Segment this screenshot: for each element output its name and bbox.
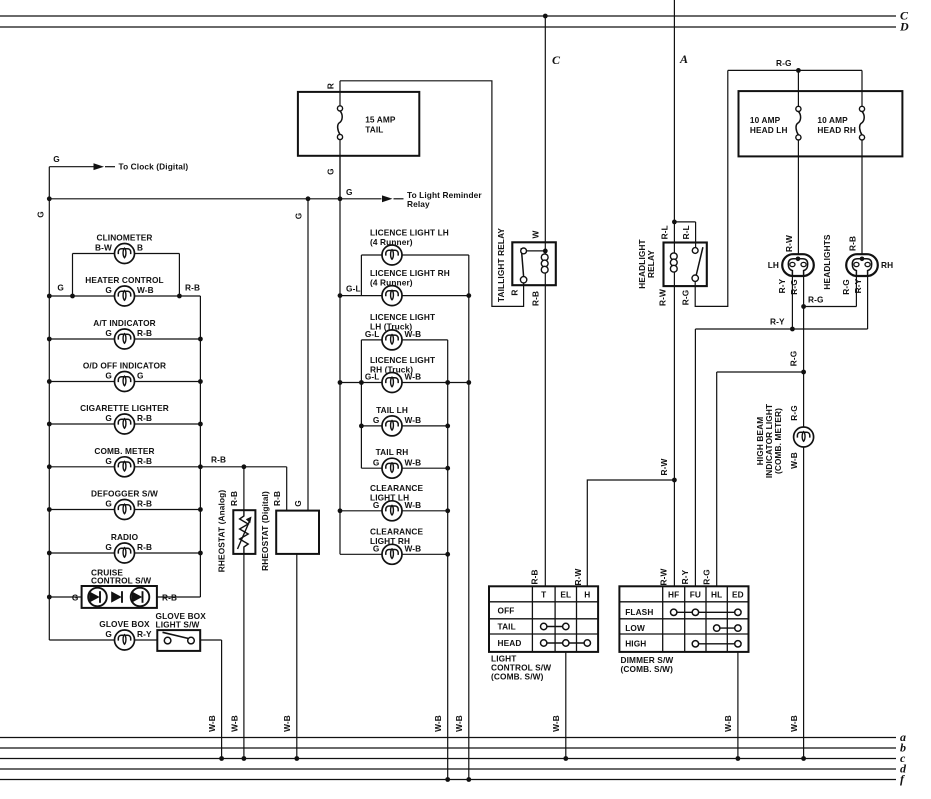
svg-text:R-L: R-L	[681, 225, 691, 239]
svg-text:10 AMP: 10 AMP	[750, 115, 781, 125]
junction - clinometer right on heater row	[177, 294, 182, 299]
svg-text:G-L: G-L	[346, 283, 361, 293]
junction - right bus licence RH 4Runner	[466, 293, 471, 298]
wire - ground bus f (bottom horizontal)	[0, 779, 896, 781]
wire - licence RH 4Runner row	[340, 295, 469, 297]
svg-text:R: R	[326, 83, 336, 89]
wire - R-G high-beam tie line	[804, 306, 857, 308]
svg-text:B-W: B-W	[95, 243, 112, 253]
switch S2 FLASH contact row	[674, 611, 738, 613]
wire - G feed to clock with arrow	[49, 166, 93, 168]
svg-text:R-G: R-G	[789, 405, 799, 421]
wire - ground bus d (bottom horizontal)	[0, 768, 896, 770]
junction - inner vertical on bus f	[445, 777, 450, 782]
svg-text:FLASH: FLASH	[625, 607, 653, 617]
rheostat R1 (analog) box	[233, 510, 255, 554]
svg-text:G: G	[137, 371, 144, 381]
svg-text:W-B: W-B	[433, 715, 443, 732]
svg-text:R-Y: R-Y	[137, 629, 152, 639]
wire - left column right R-B bus	[199, 296, 201, 597]
svg-text:OFF: OFF	[498, 606, 515, 616]
junction - rheostat digital drop on bus c	[294, 756, 299, 761]
wire - light control EL ground drop	[565, 652, 567, 759]
svg-text:R-G: R-G	[789, 279, 799, 295]
junction - inner vertical tail LH	[445, 424, 450, 429]
lamp - HEATER CONTROL	[115, 286, 135, 306]
junction - right bus a/t indicator	[198, 337, 203, 342]
svg-text:G: G	[53, 154, 60, 164]
svg-text:TAILLIGHT RELAY: TAILLIGHT RELAY	[496, 228, 506, 303]
wire - o/d off indicator row	[49, 381, 200, 383]
junction - middle bus clearance LH	[338, 508, 343, 513]
wire - fuse F2 leads	[797, 70, 799, 106]
lamp - RADIO	[115, 543, 135, 563]
wire - glove box switch to ground drop	[200, 639, 221, 641]
svg-text:HEAD: HEAD	[498, 638, 522, 648]
diode D2 in cruise switch	[111, 591, 122, 602]
svg-text:R-B: R-B	[531, 291, 541, 306]
wire - R-B through rheostat analog down to bus	[243, 467, 245, 759]
svg-text:W-B: W-B	[789, 715, 799, 732]
svg-text:TAIL: TAIL	[365, 124, 383, 134]
svg-text:G: G	[346, 187, 353, 197]
rheostat R2 (digital) box	[276, 511, 319, 554]
svg-text:W-B: W-B	[405, 500, 422, 510]
svg-text:B: B	[137, 243, 143, 253]
svg-text:R-Y: R-Y	[853, 278, 863, 293]
svg-text:TAIL: TAIL	[498, 622, 516, 632]
svg-text:TAIL LH: TAIL LH	[376, 405, 408, 415]
svg-text:COMB. METER: COMB. METER	[94, 446, 154, 456]
svg-text:HEATER CONTROL: HEATER CONTROL	[85, 275, 164, 285]
svg-text:RH: RH	[881, 260, 893, 270]
svg-text:R-B: R-B	[530, 569, 540, 584]
junction - ED drop on bus c	[736, 756, 741, 761]
relay K1 - TAILLIGHT RELAY box	[512, 242, 556, 285]
svg-text:R-G: R-G	[841, 279, 851, 295]
svg-text:W-B: W-B	[789, 452, 799, 469]
svg-text:W-B: W-B	[454, 715, 464, 732]
rheostat R1 zigzag element	[240, 510, 249, 554]
svg-text:CONTROL S/W: CONTROL S/W	[91, 576, 151, 586]
junction - middle bus licence RH truck	[338, 380, 343, 385]
wire - heater control row	[49, 295, 200, 297]
junction - R-L split above relay	[672, 220, 677, 225]
svg-text:A: A	[679, 52, 688, 66]
svg-text:G-L: G-L	[365, 329, 380, 339]
junction - right bus cigarette lighter	[198, 422, 203, 427]
junction - left bus heater control	[47, 294, 52, 299]
relay K2 contact arm	[696, 247, 703, 276]
svg-text:R-G: R-G	[808, 294, 824, 304]
svg-text:HEAD LH: HEAD LH	[750, 125, 788, 135]
svg-text:R-B: R-B	[137, 499, 152, 509]
wire - R-Y low-beam tie line	[695, 328, 867, 330]
svg-text:CLEARANCE: CLEARANCE	[370, 483, 424, 493]
wire - middle G-L bus vertical	[339, 156, 341, 555]
wire - R-W link from light control H to relay line	[587, 480, 673, 586]
svg-text:(4 Runner): (4 Runner)	[370, 237, 413, 247]
junction - left bus cigarette lighter	[47, 422, 52, 427]
wire - fuse F3 leads	[861, 70, 863, 106]
wire - clearance RH row	[340, 553, 448, 555]
junction - high-beam indicator tap	[801, 370, 806, 375]
lamp - A/T INDICATOR	[115, 329, 135, 349]
wire - indicator lamp ground drop	[803, 447, 805, 759]
switch S1 HEAD contact row	[544, 642, 588, 644]
wire - dimmer ED ground drop	[737, 652, 739, 759]
lamp - O/D OFF INDICATOR	[115, 372, 135, 392]
svg-text:RADIO: RADIO	[111, 532, 139, 542]
lamp - CLEARANCE LIGHT LH	[382, 501, 402, 521]
svg-text:G: G	[105, 499, 112, 509]
junction - inner vertical clearance RH	[445, 552, 450, 557]
wire - headlight LH low-beam leg (R-Y)	[791, 275, 793, 329]
wire - R-B corner into rheostat digital	[286, 467, 288, 511]
svg-text:LICENCE LIGHT RH: LICENCE LIGHT RH	[370, 268, 450, 278]
junction - left link tail LH	[359, 424, 364, 429]
svg-text:R-W: R-W	[573, 568, 583, 585]
wire - R-Y down to dimmer FU	[694, 329, 696, 586]
svg-text:EL: EL	[560, 590, 571, 600]
svg-text:(COMB. S/W): (COMB. S/W)	[621, 664, 674, 674]
svg-text:HEADLIGHTS: HEADLIGHTS	[822, 234, 832, 289]
svg-text:G: G	[105, 413, 112, 423]
wire - clinometer left drop	[72, 254, 74, 297]
svg-text:G: G	[105, 371, 112, 381]
wire - ground bus a (bottom horizontal)	[0, 737, 896, 739]
switch S2 HIGH contact row	[695, 643, 738, 645]
junction - inner vertical licence RH truck	[445, 380, 450, 385]
lamp - COMB. METER	[115, 457, 135, 477]
wire - ground bus c (bottom horizontal)	[0, 758, 896, 760]
wire - a/t indicator row	[49, 338, 200, 340]
svg-text:R-B: R-B	[137, 456, 152, 466]
diode D3 (circled) in cruise switch	[131, 588, 150, 607]
svg-text:G: G	[373, 500, 380, 510]
junction - left bus a/t indicator	[47, 337, 52, 342]
relay K1 coil	[541, 254, 548, 261]
junction - right bus comb. meter	[198, 464, 203, 469]
svg-text:R-B: R-B	[137, 328, 152, 338]
svg-text:G: G	[105, 456, 112, 466]
svg-text:R-G: R-G	[776, 58, 792, 68]
junction - left bus comb. meter	[47, 464, 52, 469]
svg-text:W-B: W-B	[405, 457, 422, 467]
junction - indicator drop on bus c	[801, 756, 806, 761]
svg-text:W-B: W-B	[282, 715, 292, 732]
wire - glove box row	[49, 639, 157, 641]
svg-text:FU: FU	[690, 590, 701, 600]
wire - cigarette lighter row	[49, 423, 200, 425]
svg-text:G: G	[105, 328, 112, 338]
svg-text:W-B: W-B	[405, 372, 422, 382]
svg-text:TAIL RH: TAIL RH	[376, 447, 409, 457]
svg-text:RHEOSTAT (Analog): RHEOSTAT (Analog)	[217, 490, 227, 573]
wire - clearance LH row	[340, 510, 448, 512]
junction - left link licence RH truck	[359, 380, 364, 385]
svg-text:(COMB. METER): (COMB. METER)	[773, 408, 783, 474]
svg-text:R-W: R-W	[659, 458, 669, 475]
svg-text:T: T	[541, 590, 546, 600]
svg-text:CLINOMETER: CLINOMETER	[96, 233, 152, 243]
svg-text:R-W: R-W	[784, 235, 794, 252]
fuse box - 10 AMP HEAD LH / RH	[739, 91, 903, 156]
svg-text:G: G	[326, 168, 336, 175]
svg-text:W-B: W-B	[551, 715, 561, 732]
svg-text:G: G	[373, 544, 380, 554]
svg-text:HL: HL	[711, 590, 722, 600]
switch S1 - LIGHT CONTROL S/W table	[489, 586, 598, 652]
svg-text:H: H	[584, 590, 590, 600]
svg-text:G: G	[293, 500, 303, 507]
wire - R-G to dimmer HL	[717, 371, 804, 373]
junction - rheostat analog drop on bus c	[242, 756, 247, 761]
svg-text:LIGHT S/W: LIGHT S/W	[156, 619, 200, 629]
svg-text:G: G	[105, 285, 112, 295]
wire - A feed vertical through headlight relay coil (R-W)	[673, 0, 675, 586]
svg-text:W: W	[531, 230, 541, 238]
svg-text:G: G	[72, 592, 79, 602]
junction - R-G to head LH fuse	[796, 68, 801, 73]
svg-text:HEAD RH: HEAD RH	[817, 125, 856, 135]
junction - inner vertical tail RH	[445, 466, 450, 471]
svg-text:O/D OFF INDICATOR: O/D OFF INDICATOR	[83, 361, 166, 371]
junction - relay K1 coil-contact link	[543, 249, 548, 254]
junction - low-beam node	[790, 327, 795, 332]
wire - comb meter R-B branch	[200, 466, 286, 468]
svg-text:C: C	[552, 53, 561, 67]
lamp - LICENCE LIGHT RH (4 Runner)	[382, 286, 402, 306]
wire - ground bus b (bottom horizontal)	[0, 747, 896, 749]
svg-text:GLOVE BOX: GLOVE BOX	[99, 619, 150, 629]
wire - main G distribution horizontal	[49, 198, 340, 200]
wire - R-G from relay contact up to head fuses	[695, 70, 728, 306]
svg-text:(COMB. S/W): (COMB. S/W)	[491, 672, 544, 682]
junction - left bus radio	[47, 551, 52, 556]
junction - glove box drop on bus c	[219, 756, 224, 761]
svg-text:R-B: R-B	[211, 454, 226, 464]
svg-text:LICENCE LIGHT LH: LICENCE LIGHT LH	[370, 227, 449, 237]
lamp - DEFOGGER S/W	[115, 500, 135, 520]
switch box - CRUISE CONTROL S/W	[82, 586, 157, 608]
wire - left G bus vertical	[48, 167, 50, 640]
wire - licence LH 4Runner row	[361, 254, 468, 256]
svg-text:LOW: LOW	[625, 623, 645, 633]
headlight LH lamp	[782, 254, 814, 276]
switch - GLOVE BOX LIGHT S/W	[157, 630, 200, 651]
wire - fuse F1 leads	[339, 81, 341, 106]
wire - C drop to taillight relay coil / R-B to light control T	[544, 16, 546, 586]
svg-text:G: G	[57, 283, 64, 293]
wire - licence truck pair left link	[360, 340, 362, 468]
wire - arrow to light reminder relay	[340, 198, 382, 200]
svg-text:LICENCE LIGHT: LICENCE LIGHT	[370, 312, 435, 322]
svg-text:Relay: Relay	[407, 199, 430, 209]
lamp - LICENCE LIGHT RH (Truck)	[382, 373, 402, 393]
svg-text:HF: HF	[668, 590, 679, 600]
svg-text:15 AMP: 15 AMP	[365, 114, 396, 124]
wire - licence RH truck row	[340, 382, 469, 384]
lamp - GLOVE BOX	[115, 630, 135, 650]
lamp - CIGARETTE LIGHTER	[115, 414, 135, 434]
svg-text:To Clock (Digital): To Clock (Digital)	[119, 162, 189, 172]
svg-text:R-Y: R-Y	[680, 569, 690, 584]
relay K2 - HEADLIGHT RELAY box	[664, 243, 707, 287]
wire - R-G down from high-beam node	[803, 307, 805, 427]
wire - R-L link to contact	[674, 221, 695, 223]
switch S2 LOW contact row	[717, 627, 738, 629]
wire - tail RH row	[361, 467, 447, 469]
svg-text:R-B: R-B	[162, 592, 177, 602]
relay K1 contact arm	[526, 250, 545, 252]
svg-text:A/T INDICATOR: A/T INDICATOR	[93, 318, 156, 328]
wire - headlight RH low-beam leg (R-Y)	[867, 275, 869, 329]
lamp - TAIL LH	[382, 416, 402, 436]
svg-text:R-B: R-B	[137, 542, 152, 552]
wire - defogger s/w row	[49, 509, 200, 511]
wire - headlight RH high-beam leg (R-G)	[855, 275, 857, 307]
wire - rheostat digital ground drop	[296, 554, 298, 759]
switch S2 - DIMMER S/W table	[619, 586, 748, 652]
svg-text:10 AMP: 10 AMP	[817, 115, 848, 125]
fuse F2 element (HEAD LH)	[796, 111, 801, 134]
svg-text:R-B: R-B	[847, 236, 857, 251]
junction - clinometer left on heater row	[70, 294, 75, 299]
svg-text:RHEOSTAT (Digital): RHEOSTAT (Digital)	[260, 491, 270, 571]
svg-text:R-W: R-W	[659, 568, 669, 585]
svg-text:CLEARANCE: CLEARANCE	[370, 527, 424, 537]
fuse F1 element	[338, 111, 343, 135]
junction - left bus cruise	[47, 595, 52, 600]
lamp - TAIL RH	[382, 458, 402, 478]
lamp - CLEARANCE LIGHT RH	[382, 544, 402, 564]
wire - comb. meter row	[49, 466, 200, 468]
svg-text:R-B: R-B	[185, 283, 200, 293]
svg-text:W-B: W-B	[405, 415, 422, 425]
svg-text:R-Y: R-Y	[770, 316, 785, 326]
svg-text:RELAY: RELAY	[646, 250, 656, 278]
switch S1 TAIL contact row	[544, 626, 566, 628]
fuse F3 element (HEAD RH)	[860, 111, 865, 134]
svg-text:G: G	[36, 211, 46, 218]
svg-text:R: R	[510, 289, 520, 295]
wire - tail LH row	[361, 425, 447, 427]
wire - licence 4Runner pair left link	[360, 255, 362, 296]
svg-text:G: G	[373, 415, 380, 425]
junction - left bus defogger s/w	[47, 507, 52, 512]
svg-text:CIGARETTE LIGHTER: CIGARETTE LIGHTER	[80, 403, 169, 413]
wire - cruise row left	[49, 596, 81, 598]
svg-text:W-B: W-B	[723, 715, 733, 732]
wire - radio row	[49, 552, 200, 554]
svg-text:DEFOGGER S/W: DEFOGGER S/W	[91, 489, 158, 499]
svg-text:ED: ED	[732, 590, 744, 600]
wire - cruise row right	[157, 596, 201, 598]
junction - R-B branch to rheostat analog	[242, 464, 247, 469]
junction - G bus / clock branch	[47, 196, 52, 201]
lamp - LICENCE LIGHT LH (4 Runner)	[382, 245, 402, 265]
svg-text:(4 Runner): (4 Runner)	[370, 277, 413, 287]
svg-text:W-B: W-B	[229, 715, 239, 732]
svg-text:LH: LH	[768, 260, 779, 270]
wire - R-G distribution to head fuses	[728, 69, 862, 71]
junction - inner vertical clearance LH	[445, 508, 450, 513]
junction - right-bus drop on bus f	[466, 777, 471, 782]
svg-text:G: G	[294, 213, 304, 220]
lamp - CLINOMETER	[115, 244, 135, 264]
junction - right bus radio	[198, 551, 203, 556]
junction - high-beam node	[801, 304, 806, 309]
svg-text:G: G	[373, 457, 380, 467]
svg-text:R-B: R-B	[137, 413, 152, 423]
junction - left bus o/d off indicator	[47, 379, 52, 384]
wire - power bus C (top horizontal)	[0, 15, 896, 17]
svg-text:R-G: R-G	[702, 569, 712, 585]
svg-text:G: G	[105, 542, 112, 552]
svg-text:W-B: W-B	[137, 285, 154, 295]
svg-text:W-B: W-B	[207, 715, 217, 732]
svg-text:HIGH: HIGH	[625, 639, 646, 649]
junction - G branch to rheostat digital	[306, 196, 311, 201]
svg-text:R-B: R-B	[272, 491, 282, 506]
lamp - LICENCE LIGHT LH (Truck)	[382, 330, 402, 350]
junction - right bus licence RH truck	[466, 380, 471, 385]
wire - clinometer right drop	[178, 254, 180, 297]
junction - R-W tap	[672, 478, 677, 483]
svg-text:R-Y: R-Y	[777, 278, 787, 293]
svg-text:W-B: W-B	[405, 544, 422, 554]
svg-text:G-L: G-L	[365, 372, 380, 382]
wire - R feed from tail fuse to taillight relay	[340, 81, 524, 307]
wire - clinometer row	[73, 253, 180, 255]
wire - G branch down to rheostat (digital)	[307, 199, 309, 511]
junction - right bus defogger s/w	[198, 507, 203, 512]
junction - middle bus licence RH 4Runner	[338, 293, 343, 298]
svg-text:R-G: R-G	[681, 290, 691, 306]
svg-text:R-G: R-G	[789, 351, 799, 367]
wire - power bus D (top horizontal)	[0, 26, 896, 28]
junction - G node under tail fuse	[338, 196, 343, 201]
junction - C bus tap	[543, 14, 548, 19]
wire - licence LH truck row	[361, 339, 447, 341]
lamp - HIGH BEAM INDICATOR LIGHT (COMB. METER)	[794, 427, 814, 447]
svg-text:LICENCE LIGHT: LICENCE LIGHT	[370, 355, 435, 365]
diode D1 (circled) in cruise switch	[88, 588, 107, 607]
svg-text:G: G	[105, 629, 112, 639]
wire - middle right bus vertical	[468, 255, 470, 780]
svg-text:R-B: R-B	[229, 491, 239, 506]
svg-text:R-L: R-L	[660, 225, 670, 239]
headlight RH lamp	[846, 254, 878, 276]
relay K2 coil	[670, 253, 677, 260]
junction - right bus o/d off indicator	[198, 379, 203, 384]
wire - inner W-B vertical	[447, 340, 449, 780]
junction - EL drop on bus c	[563, 756, 568, 761]
svg-text:W-B: W-B	[405, 329, 422, 339]
svg-text:D: D	[899, 20, 909, 34]
fuse F1 box - 15 AMP TAIL	[298, 92, 419, 156]
svg-text:R-W: R-W	[657, 289, 667, 306]
wire - headlight LH high-beam leg (R-G)	[803, 275, 805, 307]
